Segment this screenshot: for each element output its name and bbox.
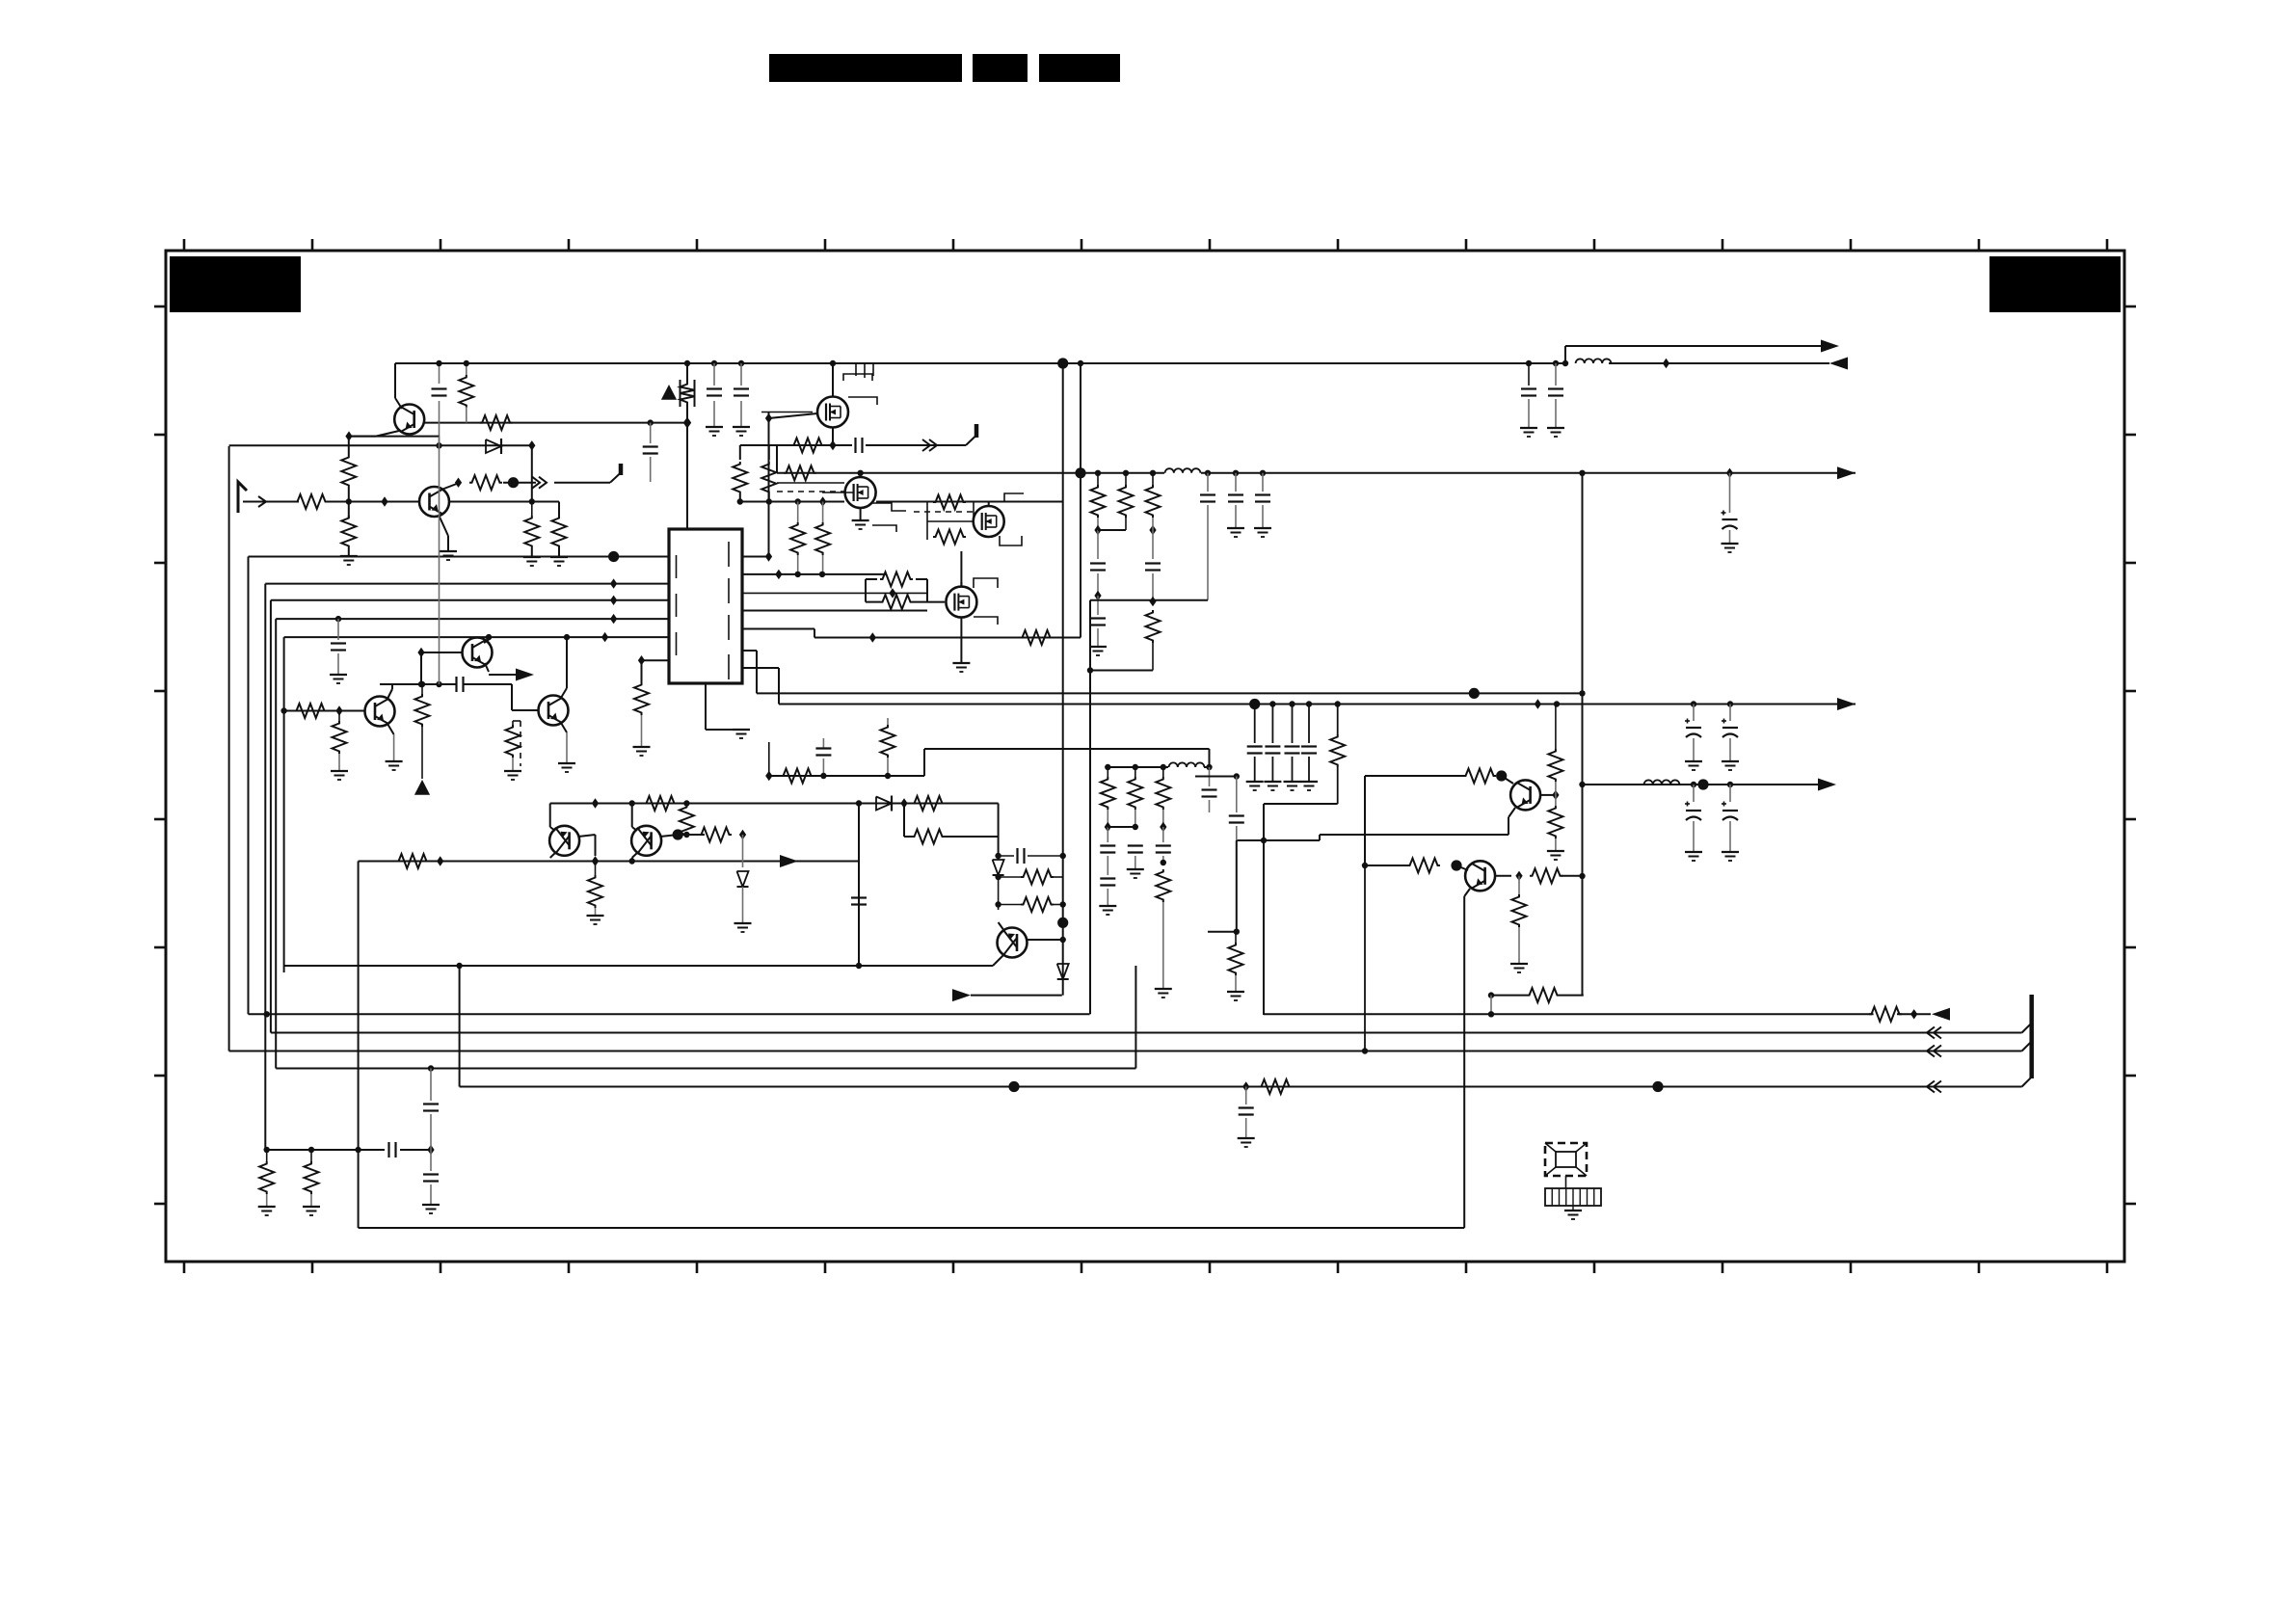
wire 898 [1365,865,1407,866]
mosfet M2 [845,477,876,508]
zener 1035 [993,860,1004,875]
resistor R-Q10c [1530,868,1562,883]
resistor R462 [791,439,824,453]
col 1168 link [1125,518,1127,530]
resistor RM3a [933,495,966,510]
bus 359 takeoff [1564,346,1566,363]
bus A [1264,1013,1874,1015]
connector hook y462 [966,437,975,446]
wire bundle v2 [248,557,250,1015]
cap col 1253 [1205,470,1211,476]
col 1149 [1107,767,1108,777]
wire IC pin E [284,636,669,638]
bus Aprime [249,1013,1090,1015]
wire Q5 emitter [550,852,556,858]
resistor busA [1869,1007,1902,1022]
resistor R665 [634,682,649,715]
capacitor Crow1320.4 [1271,705,1273,744]
dashed Q4 [520,721,521,766]
bus E [276,1068,1135,1070]
wire Q2 collector [441,484,458,491]
zener 1102 [1057,964,1069,979]
capacitor C-q1 [439,363,441,384]
resistor R833 [644,796,677,811]
transistor Q8 [463,638,493,668]
resistor R921 [887,718,889,725]
wire y462 [740,444,852,446]
slant B [2022,1023,2032,1032]
resistor RM4b [880,595,913,609]
wire Q10 base [1456,865,1468,870]
ground R1282 [1227,991,1244,993]
ground 1292 [1238,1137,1255,1139]
wire M1 source [832,428,834,445]
ground col1139 [1089,646,1107,648]
transistor Q10 [1465,861,1495,891]
vertical 1416 upper [1364,776,1366,865]
bracket bus [2029,995,2034,1078]
dashed link [777,482,844,484]
wire Q3 collector [387,689,392,699]
wire H [952,989,971,1001]
resistor R-712 [685,804,687,808]
vertical 891 [858,804,860,967]
input flag [238,482,247,513]
bus F [265,1149,385,1151]
diamond 797 805 [765,771,772,781]
wire Q8 base [421,652,463,653]
ground R352 [331,770,348,772]
bus B [271,1032,2022,1034]
resistor R-576 [558,502,560,517]
wire Q2 emitter [439,515,448,536]
wire M1 gate drop [765,413,772,423]
transistor Q6 [631,826,661,856]
ground C351 [330,674,347,676]
wire IC pin B [265,583,669,585]
resistor R-q1a [466,363,467,376]
wire M4 gate [927,601,945,603]
ground Q3 [386,760,403,762]
wire Q9 base [1502,776,1513,784]
triangle 438 [414,780,430,795]
ground C1614 [1547,427,1564,429]
bus VCC top [395,362,1565,364]
wire cap710 chain [439,437,441,684]
wire M2 gate [822,492,854,493]
cap col 1310 [1260,470,1266,476]
resistor R737 [294,704,327,718]
ground R1613 [1547,850,1564,852]
wire bundle v3 [264,584,266,1150]
vertical 1641 [1582,473,1584,996]
arrow Q8 [516,669,534,681]
resistor R438 [419,681,425,687]
resistor R-q1b [480,415,513,430]
bus 699 [757,692,1583,694]
big dot 957 [1057,918,1068,928]
corner 1254 [1209,749,1211,767]
bus G [359,1227,1465,1229]
capacitor CF [387,1142,389,1157]
cap col 1282 [1233,470,1239,476]
bus490 left corner [776,445,778,473]
bus D [460,1086,2022,1088]
wire Q7 emitter [995,954,1004,964]
wire Q8 emitter [485,663,489,672]
resistor col x1168 [1123,470,1129,476]
wire Q2 right [449,501,559,503]
wire IC pin A [249,556,670,558]
wire Q5 collector [549,804,551,828]
wire bundle v6 [283,637,285,972]
resistor R893 [396,854,429,868]
wire Q4 emitter [561,723,567,732]
wire 796 [1108,766,1168,768]
bus y463 [229,444,532,446]
col 1177 [1135,767,1136,777]
dashed RM3 [914,511,977,513]
wire Q9 collector [1540,794,1556,796]
wire M4 source [960,618,962,663]
ecap 1757 upper [1693,705,1695,722]
wire Q7 collector [999,922,1004,931]
ground C1586 [1520,427,1537,429]
ground X1 [1564,1210,1582,1211]
connector footprint [1545,1188,1601,1206]
wire Q10 collector [1495,875,1511,877]
inductor L490 [1165,468,1201,473]
ecap 1757 lower [1693,785,1695,802]
resistor R323 [310,1150,312,1161]
wire Q1 base row [424,422,687,424]
arrow bus730 [1837,698,1855,710]
resistor pair 938 [999,904,1022,906]
col 1196 chain [1149,525,1156,535]
IC U1 bottom pin wire [705,683,707,730]
connector hook out1 [610,473,620,482]
warning triangle top [661,385,677,400]
wire Q3 emitter [387,724,394,734]
transistor Q3 [365,697,395,727]
capacitor C674 [650,423,652,443]
wire 872 seg [1319,835,1321,840]
resistor RM3b [933,530,966,545]
ground C741 [706,426,723,428]
wire IC pin D [276,618,669,620]
arrow bus490 [1837,466,1855,479]
transistor Q2 [419,487,449,517]
wire M1 drain [832,363,834,396]
ground R-548 [523,556,541,558]
arrow 359 [1821,340,1839,353]
wire IC pin R4 [742,610,927,612]
wire M1 gate [769,413,818,418]
capacitor C1586 [1526,360,1532,366]
gate stubs M1 [843,374,872,381]
transistor Q7 [998,928,1028,958]
bus 833 [550,803,999,805]
col 1139 chain [1097,518,1099,530]
resistor R898 [1407,859,1440,873]
resistor R532 [512,721,514,725]
col 1207 [1162,767,1164,777]
big vertical 1102 [1062,363,1064,996]
wire X1 [1565,1176,1567,1188]
gate stubs M3 [1000,536,1022,545]
ground R-617 [587,915,604,917]
slant D [2022,1077,2032,1086]
wire 805 left stub [1195,776,1237,778]
cap 1794 [1726,468,1733,478]
capacitor C462 [854,438,856,453]
ground Q2 [440,550,457,552]
wire IC pin R7 [742,667,779,669]
wire M3 drain [988,502,990,507]
resistor R-q2c [469,475,502,490]
parallel loop [903,804,905,838]
ground M2 [852,519,869,521]
transistor Q1 [394,405,424,435]
wire y521 [740,501,844,503]
resistor R-in [295,494,328,509]
cap 447 up [430,1069,432,1102]
ground D-q6 [734,922,752,924]
ground M4 [952,662,970,664]
wire bundle v5 [275,619,277,1068]
resistor R-617 [592,856,599,865]
wire bundle v4 [270,600,272,1033]
vertical 1121 [1080,363,1081,473]
ground R1576 [1510,963,1528,965]
border frame [166,251,2124,1262]
wire Q1 collector [394,363,396,398]
diode D833 [859,803,875,805]
wire IC pin R2 [742,573,887,575]
gate stubs M2 [872,503,906,511]
ground C769 [733,426,750,428]
inductor L814 [1644,780,1680,785]
crystal X1 [1545,1143,1587,1176]
wire IC pin R3 [742,592,927,594]
inductor L796 [1169,762,1205,767]
diode D-463 [486,439,501,453]
resistor R805b [1463,769,1496,784]
vertical 476 [459,966,461,1087]
capacitor Crow1301.7 [1254,705,1256,744]
corner block right [1989,256,2121,312]
arrow 377 [1829,358,1848,370]
resistor busD [1259,1079,1292,1094]
ground R532 [504,770,521,772]
bus 710 [779,704,1855,705]
wire M2 source [860,508,862,520]
transistor Q4 [539,696,569,726]
title redaction bar 2 [973,54,1028,82]
wire footprint gnd [1572,1206,1574,1211]
wire M4 drain [960,582,962,586]
vertical 1311 [1263,840,1265,1015]
diamond 447 [427,1145,434,1155]
resistor RM4a [880,572,913,587]
vertical 371 [358,862,360,1229]
wire out1 [503,482,536,484]
resistor R853 [822,502,824,523]
wire Q6 emitter [632,852,638,858]
wire IC pin R1 [742,556,769,558]
wire 377 to arrow [1609,362,1829,364]
gate stubs M4 [974,578,998,588]
wire Q8 collector [488,637,490,640]
ecap 1795 upper [1729,705,1731,722]
stub 1547 [1490,996,1492,1015]
resistor R1576 [1518,876,1520,894]
wire col1196 route [1090,670,1153,672]
title redaction bar 3 [1039,54,1120,82]
resistor chain Rq2 lower [341,516,356,548]
node 463/548 [528,440,535,450]
ground R-576 [550,556,568,558]
ground 447 [422,1204,440,1206]
slant C [2022,1041,2032,1051]
wire H east [1491,995,1527,997]
wire Q4 collector [561,688,567,698]
IC U1 [669,529,742,683]
fusible resistor R-fuse [681,382,695,405]
wire M3 gate net [927,520,974,522]
IC U1 top pin wire [686,363,688,383]
resistor R1613 up [1555,705,1557,750]
wire 737 [284,710,365,712]
ground IC bottom [733,729,750,731]
transistor Q9 [1510,780,1540,810]
resistor R767 [739,445,741,460]
ecap 1795 lower [1729,785,1731,802]
wire Q7 base [1028,939,1063,941]
ground 1794 [1722,543,1739,545]
vertical 1178 [1135,966,1136,1069]
wire IC pin R6 [742,650,757,652]
wire Q6 collector [631,804,633,828]
bus C [229,1051,2022,1052]
resistor col x1196 [1150,470,1156,476]
arrow 814 [1818,779,1836,791]
resistor R352 [338,711,340,722]
wire 805b [1365,775,1463,777]
resistor R827 [797,502,799,523]
resistor bus490 inline [784,466,816,480]
wire Q10 emitter [1464,889,1470,896]
ruler ticks [183,239,186,251]
ground Rq2 [340,555,358,557]
capacitor C1614 [1553,360,1559,366]
vertical 1282 chain [1236,777,1238,813]
wire 893 [359,861,859,863]
capacitor Crow1340.5 [1292,705,1294,744]
arrow busA [1932,1008,1950,1021]
resistor R805 [781,769,814,784]
ground Q4e [558,762,575,764]
mosfet M3 [974,506,1004,537]
resistor col x1139 [1095,470,1101,476]
wire input [243,501,299,503]
capacitor C-888 [999,855,1014,857]
resistor R-548 [531,502,533,517]
wire row1387 return [1264,803,1338,805]
wire 814 [1583,784,1820,785]
diode D-q6 [742,835,744,867]
node 1641 on 490 [1579,470,1585,476]
capacitor Crow1358 [1308,705,1310,744]
resistor pair 910 [999,876,1022,878]
resistor R-661 [1020,630,1053,645]
resistor chain Rq2 upper [348,437,350,455]
wire IC pin R5 [742,628,814,630]
resistor R1613 dn [1555,795,1557,806]
inductor L377 [1576,359,1612,363]
corner block left [170,256,301,312]
resistor R797 [768,445,770,460]
capacitor C741 [711,360,717,366]
wire Q1 emitter [376,431,399,437]
title redaction bar 1 [769,54,962,82]
wire Q6 base [660,835,678,837]
resistor Rrow1387 [1337,705,1339,735]
cap 1292 [1245,1087,1247,1105]
gate trace stubs top [855,363,857,376]
mosfet M1 [817,397,848,428]
resistor R1282 [1235,932,1237,943]
capacitor C351 [337,619,339,640]
wire IC pin C [271,599,669,601]
resistor R833b [912,796,945,811]
ground R276 [258,1206,276,1208]
node fuse [683,417,691,429]
chevrons y462 [929,439,937,451]
bus J 1009 [284,965,993,967]
wire bundle v1 [228,446,230,1051]
wire Q4 base [511,684,513,710]
wire M2 drain [860,473,862,477]
capacitor C1254 [1209,767,1211,786]
arrow on 893 [780,855,798,867]
transistor Q5 [549,826,579,856]
capacitor C854 [822,738,824,749]
wire Q5 base [578,835,596,837]
mosfet M4 [946,587,976,618]
ground R665 [633,746,651,748]
bus 490 [777,472,1164,474]
wire Q9 emitter [1508,808,1515,817]
wire base Q2 [328,501,420,503]
diamond 665 [638,655,645,665]
wire 805 seg [769,775,924,777]
resistor R-Q6 [699,828,732,842]
capacitor C710 [455,677,457,692]
resistor R276 [266,1150,268,1161]
ground R323 [303,1206,320,1208]
capacitor C769 [738,360,744,366]
cap 447 dn [430,1150,432,1171]
